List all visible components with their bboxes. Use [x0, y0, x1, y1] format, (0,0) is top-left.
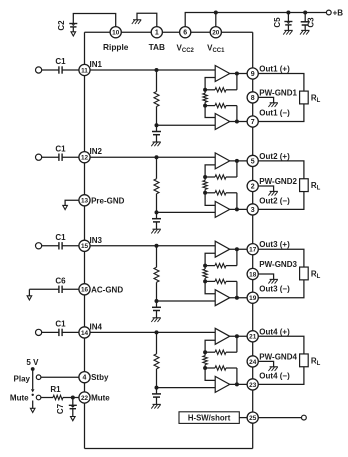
svg-text:22: 22	[81, 395, 89, 402]
pin 9 Out1 (+)	[247, 65, 290, 80]
wire input terminal to C1 (ch2)	[41, 156, 59, 158]
svg-text:3: 3	[251, 207, 255, 214]
pin 3 Out2 (&#8722;)	[247, 196, 290, 215]
chassis ground PW-GND2	[268, 191, 278, 195]
svg-text:Stby: Stby	[91, 373, 109, 382]
wire C1 to pin 11	[62, 69, 79, 71]
svg-text:10: 10	[112, 30, 120, 37]
capacitor C1 (ch3)	[55, 233, 66, 250]
junction feedback top (ch1)	[203, 88, 207, 92]
svg-text:IN4: IN4	[90, 322, 103, 331]
junction feedback bottom (ch2)	[203, 191, 207, 195]
pin 12 IN2	[79, 147, 103, 163]
IC outline left edge	[84, 32, 86, 448]
ground arrow below C7	[71, 417, 76, 421]
wire PW-GND3 to chassis ground	[258, 274, 273, 279]
op-amp bottom (ch4)	[215, 376, 230, 392]
svg-text:H-SW/short: H-SW/short	[188, 413, 231, 422]
pin 17 Out3 (+)	[247, 240, 290, 255]
svg-text:23: 23	[249, 382, 257, 389]
ground arrow below C2	[71, 32, 76, 36]
junction C3 on rail	[303, 11, 307, 15]
pin 11 IN1	[79, 60, 103, 76]
svg-text:Out4 (−): Out4 (−)	[259, 371, 290, 380]
wire load RL bottom (ch3)	[258, 280, 304, 298]
junction feedback top (ch4)	[203, 350, 207, 354]
junction bottom output (ch4)	[235, 382, 239, 386]
svg-text:C5: C5	[273, 17, 282, 28]
wire PW-GND1 to chassis ground	[258, 97, 273, 102]
wire bottom output (ch2)	[230, 208, 247, 210]
wire load RL top (ch1)	[258, 74, 304, 92]
pin 24 PW-GND4	[247, 352, 297, 367]
svg-text:+B: +B	[333, 9, 344, 18]
pin 14 IN4	[79, 322, 103, 338]
capacitor C1 (ch2)	[55, 144, 66, 161]
junction C5 on rail	[286, 11, 290, 15]
resistor input bias (ch1)	[154, 70, 159, 125]
wire R1 junction to pin 22	[73, 397, 79, 399]
chassis ground PW-GND3	[268, 279, 278, 283]
resistor feedback bottom (ch4)	[205, 366, 237, 370]
pin 10 Ripple	[103, 27, 129, 52]
wire bias node to op-amp input (ch3)	[157, 300, 216, 302]
input terminal IN3	[36, 243, 42, 249]
wire bottom op-amp inverting input (ch2)	[205, 193, 215, 206]
resistor input bias (ch3)	[154, 246, 159, 301]
wire H-SW/short to pin 25	[239, 417, 247, 419]
chassis ground bias (ch3)	[151, 318, 161, 322]
terminal pin 25 output	[302, 415, 307, 420]
resistor interstage (ch4)	[203, 352, 207, 368]
wire input terminal to C1 (ch1)	[41, 69, 59, 71]
capacitor bias decoupling (ch3)	[152, 301, 161, 318]
svg-text:2: 2	[251, 183, 255, 190]
resistor RL (ch4)	[300, 354, 321, 367]
junction feedback top (ch3)	[203, 264, 207, 268]
wire Play contact to Stby	[41, 376, 79, 378]
resistor feedback top (ch1)	[205, 88, 237, 92]
junction bottom output (ch2)	[235, 207, 239, 211]
junction bias node (ch3)	[155, 299, 159, 303]
pin 25	[247, 412, 258, 423]
svg-text:13: 13	[81, 198, 89, 205]
op-amp bottom (ch2)	[215, 201, 230, 217]
op-amp bottom (ch1)	[215, 114, 230, 130]
wire pin 25 to terminal	[258, 417, 301, 419]
wire C1 to pin 15	[62, 245, 79, 247]
node 5V	[31, 367, 35, 371]
ground arrow Pre-GND	[63, 205, 68, 209]
junction bias tap (ch3)	[155, 244, 159, 248]
capacitor bias decoupling (ch4)	[152, 388, 161, 405]
ground arrow below switch	[30, 394, 35, 413]
resistor feedback top (ch4)	[205, 350, 237, 354]
wire top output to feedback (ch1)	[236, 74, 238, 90]
wire feedback to bottom output (ch4)	[236, 368, 238, 384]
junction feedback bottom (ch1)	[203, 104, 207, 108]
pin 16 AC-GND	[79, 284, 123, 295]
svg-text:PW-GND3: PW-GND3	[259, 260, 297, 269]
wire top output (ch2)	[230, 160, 247, 162]
chassis ground at TAB	[132, 20, 142, 24]
wire Pre-GND to ground arrow	[65, 200, 79, 205]
junction bias tap (ch2)	[155, 155, 159, 159]
pin 23 Out4 (&#8722;)	[247, 371, 290, 390]
wire load RL bottom (ch4)	[258, 367, 304, 385]
wire bias node to op-amp input (ch2)	[157, 211, 216, 213]
svg-text:18: 18	[249, 271, 257, 278]
svg-text:14: 14	[81, 330, 89, 337]
resistor interstage (ch1)	[203, 90, 207, 106]
pin 5 Out2 (+)	[247, 152, 290, 167]
junction bias node (ch4)	[155, 386, 159, 390]
chassis ground bias (ch2)	[151, 229, 161, 233]
svg-text:C7: C7	[56, 403, 65, 414]
svg-text:Out1 (−): Out1 (−)	[259, 109, 290, 118]
wire input terminal to C1 (ch3)	[41, 245, 59, 247]
svg-text:R1: R1	[50, 385, 61, 394]
wire AC-GND left segment	[29, 288, 59, 290]
svg-text:PW-GND4: PW-GND4	[259, 352, 297, 361]
junction bias tap (ch4)	[155, 330, 159, 334]
wire load RL top (ch2)	[258, 161, 304, 179]
resistor RL (ch2)	[300, 179, 321, 192]
resistor input bias (ch4)	[154, 332, 159, 387]
wire IN2 to op-amp (ch2)	[90, 156, 215, 158]
capacitor bias decoupling (ch2)	[152, 212, 161, 229]
junction feedback bottom (ch3)	[203, 279, 207, 283]
ground arrow AC-GND	[27, 289, 32, 300]
resistor feedback bottom (ch1)	[205, 103, 237, 107]
wire top output to feedback (ch2)	[236, 161, 238, 177]
IC outline top edge	[85, 31, 253, 33]
pin 2 PW-GND2	[247, 177, 297, 192]
block H-SW/short	[179, 412, 239, 424]
capacitor C5	[273, 13, 292, 31]
svg-text:IN2: IN2	[90, 147, 103, 156]
wire feedback to bottom output (ch1)	[236, 106, 238, 122]
wire PW-GND2 to chassis ground	[258, 186, 273, 191]
svg-text:C6: C6	[55, 277, 66, 286]
capacitor C6	[55, 277, 66, 294]
chassis ground bias (ch4)	[151, 404, 161, 408]
junction bias node (ch1)	[155, 123, 159, 127]
label 5 V	[26, 358, 39, 367]
pin 19 Out3 (&#8722;)	[247, 285, 290, 304]
svg-text:TAB: TAB	[149, 42, 165, 52]
wire +B rail	[216, 12, 326, 14]
pin 18 PW-GND3	[247, 260, 297, 280]
label Mute (switch)	[10, 393, 29, 402]
op-amp top (ch3)	[215, 241, 230, 257]
wire bottom op-amp inverting input (ch3)	[205, 281, 215, 293]
pin 13 Pre-GND	[79, 195, 125, 206]
switch contact Mute	[36, 395, 41, 400]
svg-text:5: 5	[251, 158, 255, 165]
svg-text:1: 1	[155, 30, 159, 37]
capacitor C2	[57, 20, 77, 32]
capacitor C1 (ch1)	[55, 57, 66, 74]
op-amp top (ch4)	[215, 328, 230, 344]
op-amp top (ch2)	[215, 153, 230, 169]
pin 7 Out1 (&#8722;)	[247, 109, 290, 128]
IC outline bottom edge	[85, 448, 253, 450]
switch arm from 5V	[31, 369, 35, 392]
resistor input bias (ch2)	[154, 157, 159, 212]
svg-text:8: 8	[251, 95, 255, 102]
svg-text:11: 11	[81, 67, 88, 74]
IC outline right edge	[252, 32, 254, 448]
resistor interstage (ch3)	[203, 266, 207, 282]
svg-text:21: 21	[249, 334, 257, 341]
svg-text:4: 4	[83, 375, 87, 382]
wire IN1 to op-amp (ch1)	[90, 69, 215, 71]
wire top output (ch3)	[230, 248, 247, 250]
svg-text:25: 25	[249, 415, 257, 422]
svg-text:Out3 (+): Out3 (+)	[259, 240, 290, 249]
resistor R1	[41, 385, 73, 400]
input terminal IN1	[36, 67, 42, 73]
junction feedback top (ch2)	[203, 175, 207, 179]
wire IN4 to op-amp (ch4)	[90, 331, 215, 333]
resistor feedback top (ch2)	[205, 175, 237, 179]
chassis ground bias (ch1)	[151, 142, 161, 146]
junction bottom output (ch1)	[235, 120, 239, 124]
chassis ground below C5	[283, 30, 293, 34]
switch contact Play	[36, 375, 41, 380]
svg-text:C1: C1	[55, 144, 66, 153]
wire top op-amp inverting input (ch1)	[205, 78, 215, 90]
svg-text:12: 12	[81, 155, 89, 162]
wire bottom op-amp inverting input (ch1)	[205, 106, 215, 118]
svg-text:6: 6	[183, 30, 187, 37]
wire feedback to bottom output (ch2)	[236, 193, 238, 210]
wire Vcc2 riser to +B rail	[185, 13, 216, 27]
junction R1 C7	[71, 396, 75, 400]
capacitor C7	[56, 398, 77, 417]
svg-text:Out4 (+): Out4 (+)	[259, 327, 290, 336]
junction above Vcc1	[214, 11, 218, 15]
chassis ground PW-GND1	[268, 103, 278, 107]
wire top op-amp inverting input (ch4)	[205, 340, 215, 352]
svg-text:C3: C3	[307, 17, 316, 28]
wire top output to feedback (ch3)	[236, 249, 238, 265]
svg-text:15: 15	[81, 243, 89, 250]
junction top output (ch3)	[235, 247, 239, 251]
wire C2 to pin 10 Ripple	[73, 14, 115, 27]
wire feedback to bottom output (ch3)	[236, 281, 238, 297]
wire load RL top (ch4)	[258, 336, 304, 354]
wire Vcc1 riser	[215, 13, 217, 27]
svg-text:Out2 (+): Out2 (+)	[259, 152, 290, 161]
pin 21 Out4 (+)	[247, 327, 290, 342]
junction top output (ch4)	[235, 334, 239, 338]
junction feedback bottom (ch4)	[203, 366, 207, 370]
op-amp top (ch1)	[215, 66, 230, 82]
svg-text:Play: Play	[14, 375, 31, 384]
svg-text:C1: C1	[55, 57, 66, 66]
svg-text:AC-GND: AC-GND	[91, 285, 123, 294]
svg-text:PW-GND1: PW-GND1	[259, 88, 297, 97]
resistor interstage (ch2)	[203, 177, 207, 193]
pin 15 IN3	[79, 236, 103, 252]
svg-text:9: 9	[251, 71, 255, 78]
wire top output to feedback (ch4)	[236, 336, 238, 352]
wire load RL bottom (ch1)	[258, 104, 304, 122]
pin 6 Vcc2	[177, 27, 195, 54]
pin 22 Mute	[79, 392, 110, 403]
terminal +B	[326, 9, 343, 18]
svg-text:C1: C1	[55, 320, 66, 329]
capacitor C3	[301, 13, 316, 31]
chassis ground PW-GND4	[268, 367, 278, 371]
wire IN3 to op-amp (ch3)	[90, 245, 215, 247]
wire bottom op-amp inverting input (ch4)	[205, 368, 215, 380]
resistor feedback top (ch3)	[205, 263, 237, 267]
pin 8 PW-GND1	[247, 88, 297, 103]
junction bias tap (ch1)	[155, 68, 159, 72]
capacitor C1 (ch4)	[55, 320, 66, 337]
wire top op-amp inverting input (ch3)	[205, 253, 215, 265]
pin 4 Stby	[79, 372, 109, 383]
svg-text:17: 17	[249, 247, 257, 254]
chassis ground below C3	[300, 30, 310, 34]
svg-text:20: 20	[212, 30, 220, 37]
wire top output (ch1)	[230, 73, 247, 75]
wire bias node to op-amp input (ch1)	[157, 124, 216, 126]
svg-text:C2: C2	[57, 20, 66, 31]
input terminal IN4	[36, 329, 42, 335]
junction top output (ch1)	[235, 72, 239, 76]
junction bottom output (ch3)	[235, 296, 239, 300]
svg-text:7: 7	[251, 119, 255, 126]
svg-text:19: 19	[249, 295, 257, 302]
svg-text:24: 24	[249, 359, 257, 366]
wire bias node to op-amp input (ch4)	[157, 387, 216, 389]
wire load RL top (ch3)	[258, 249, 304, 267]
label Play	[14, 375, 31, 384]
wire C1 to pin 12	[62, 156, 79, 158]
wire input terminal to C1 (ch4)	[41, 331, 59, 333]
wire C1 to pin 14	[62, 331, 79, 333]
wire bottom output (ch4)	[230, 383, 247, 385]
svg-text:Out1 (+): Out1 (+)	[259, 65, 290, 74]
capacitor bias decoupling (ch1)	[152, 125, 161, 142]
svg-text:Out3 (−): Out3 (−)	[259, 285, 290, 294]
svg-text:PW-GND2: PW-GND2	[259, 177, 297, 186]
wire load RL bottom (ch2)	[258, 192, 304, 210]
wire top output (ch4)	[230, 335, 247, 337]
svg-text:C1: C1	[55, 233, 66, 242]
svg-text:16: 16	[81, 287, 89, 294]
svg-text:Mute: Mute	[10, 393, 29, 402]
pin 1 TAB	[149, 27, 165, 52]
resistor feedback bottom (ch3)	[205, 279, 237, 283]
wire C6 to pin 16	[62, 288, 79, 290]
junction bias node (ch2)	[155, 210, 159, 214]
wire bottom output (ch1)	[230, 121, 247, 123]
resistor feedback bottom (ch2)	[205, 191, 237, 195]
svg-text:Ripple: Ripple	[103, 42, 129, 52]
svg-text:IN3: IN3	[90, 236, 103, 245]
svg-text:IN1: IN1	[90, 60, 103, 69]
wire bottom output (ch3)	[230, 297, 247, 299]
svg-text:Out2 (−): Out2 (−)	[259, 196, 290, 205]
resistor RL (ch1)	[300, 91, 321, 104]
svg-text:Mute: Mute	[91, 394, 110, 403]
pin 20 Vcc1	[207, 27, 225, 54]
svg-text:Pre-GND: Pre-GND	[91, 196, 125, 205]
junction top output (ch2)	[235, 159, 239, 163]
svg-text:5 V: 5 V	[26, 358, 39, 367]
input terminal IN2	[36, 154, 42, 160]
wire PW-GND4 to chassis ground	[258, 361, 273, 366]
resistor RL (ch3)	[300, 267, 321, 280]
wire TAB to chassis ground	[137, 13, 157, 26]
op-amp bottom (ch3)	[215, 290, 230, 306]
wire top op-amp inverting input (ch2)	[205, 165, 215, 177]
